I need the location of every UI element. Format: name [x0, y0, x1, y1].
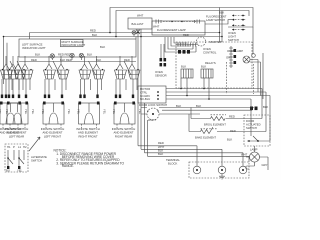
svg-text:RANGE.: RANGE. — [62, 164, 74, 168]
svg-text:C: C — [147, 109, 149, 113]
svg-text:RED: RED — [183, 33, 189, 37]
svg-text:MOTOR: MOTOR — [140, 87, 150, 91]
svg-text:BLK: BLK — [158, 149, 163, 153]
svg-text:RED: RED — [31, 58, 37, 62]
svg-text:GRY: GRY — [262, 163, 268, 167]
svg-text:BALLAST: BALLAST — [132, 22, 144, 26]
svg-text:OVEN: OVEN — [203, 47, 211, 51]
svg-text:INDICATOR LIGHT: INDICATOR LIGHT — [62, 43, 86, 47]
svg-text:SWITCH: SWITCH — [31, 159, 42, 163]
svg-text:RED: RED — [229, 115, 235, 119]
svg-text:LIGHT: LIGHT — [228, 35, 236, 39]
svg-text:OVEN LAMP: OVEN LAMP — [227, 49, 243, 53]
svg-text:BLK: BLK — [100, 45, 105, 49]
svg-text:BLK: BLK — [158, 152, 163, 156]
svg-text:RED: RED — [66, 58, 72, 62]
svg-text:DOOR: DOOR — [246, 119, 254, 123]
svg-text:BLK: BLK — [219, 11, 224, 15]
svg-text:SWITCH: SWITCH — [246, 126, 257, 130]
svg-text:WHT: WHT — [158, 145, 165, 149]
svg-text:INDICATOR LIGHT: INDICATOR LIGHT — [22, 46, 46, 50]
svg-text:H1: H1 — [7, 145, 11, 149]
svg-text:YEL: YEL — [24, 109, 28, 115]
svg-text:SWITCH: SWITCH — [228, 38, 239, 42]
svg-text:FLUORESCENT: FLUORESCENT — [206, 15, 227, 19]
svg-text:RELAYS: RELAYS — [205, 61, 216, 65]
svg-text:LEFT REAR: LEFT REAR — [9, 135, 24, 139]
svg-text:BLK: BLK — [181, 65, 186, 69]
svg-text:LEFT FRONT: LEFT FRONT — [44, 135, 61, 139]
svg-text:LAMP: LAMP — [250, 148, 258, 152]
svg-text:RED: RED — [90, 29, 96, 33]
svg-text:RIGHT REAR: RIGHT REAR — [115, 135, 132, 139]
svg-text:OVEN: OVEN — [155, 70, 163, 74]
svg-text:RED: RED — [124, 58, 130, 62]
svg-text:SENSOR: SENSOR — [155, 74, 167, 78]
svg-text:BAKE ELEMENT: BAKE ELEMENT — [195, 136, 216, 140]
svg-text:RED: RED — [158, 141, 164, 145]
svg-text:P: P — [13, 145, 15, 149]
svg-text:YEL: YEL — [0, 109, 2, 115]
svg-text:ALTERNATE: ALTERNATE — [31, 155, 47, 159]
svg-text:NC-BLU: NC-BLU — [140, 97, 150, 101]
svg-text:WHT: WHT — [137, 14, 144, 18]
svg-text:BLK: BLK — [263, 105, 268, 109]
svg-text:YEL: YEL — [17, 169, 23, 173]
svg-text:LEFT SURFACE: LEFT SURFACE — [22, 43, 43, 47]
svg-text:H2: H2 — [23, 145, 27, 149]
svg-text:TERMINAL: TERMINAL — [166, 158, 180, 162]
svg-text:RED: RED — [230, 129, 236, 133]
svg-text:BLK: BLK — [176, 104, 181, 108]
svg-text:BLOCK: BLOCK — [168, 162, 177, 166]
svg-text:BLK: BLK — [227, 138, 232, 142]
svg-text:RIGHT FRONT: RIGHT FRONT — [78, 135, 97, 139]
svg-text:CONTROL: CONTROL — [203, 51, 217, 55]
svg-text:RED: RED — [58, 53, 64, 57]
svg-text:CTRL: CTRL — [140, 90, 148, 94]
svg-text:DOOR LOCK SWITCH: DOOR LOCK SWITCH — [139, 103, 167, 107]
svg-text:LAMP SWITCH: LAMP SWITCH — [206, 18, 225, 22]
svg-text:FLUORESCENT LAMP: FLUORESCENT LAMP — [157, 28, 186, 32]
svg-text:BLK: BLK — [87, 53, 92, 57]
svg-text:BLK: BLK — [196, 104, 201, 108]
svg-text:BU: BU — [6, 169, 10, 173]
svg-text:WHT: WHT — [153, 25, 160, 29]
svg-text:BROIL ELEMENT: BROIL ELEMENT — [204, 123, 226, 127]
svg-text:H: H — [157, 109, 159, 113]
svg-text:BLK: BLK — [201, 65, 206, 69]
svg-text:BLK: BLK — [35, 53, 40, 57]
svg-text:W-GRN: W-GRN — [140, 94, 150, 98]
svg-text:GRY: GRY — [226, 56, 232, 60]
svg-text:BLK: BLK — [92, 33, 97, 37]
svg-text:L1: L1 — [18, 145, 22, 149]
svg-text:LIGHT: LIGHT — [148, 118, 156, 122]
svg-text:RED: RED — [65, 53, 71, 57]
svg-text:OVEN: OVEN — [228, 31, 236, 35]
svg-text:ACTUATED: ACTUATED — [246, 123, 261, 127]
